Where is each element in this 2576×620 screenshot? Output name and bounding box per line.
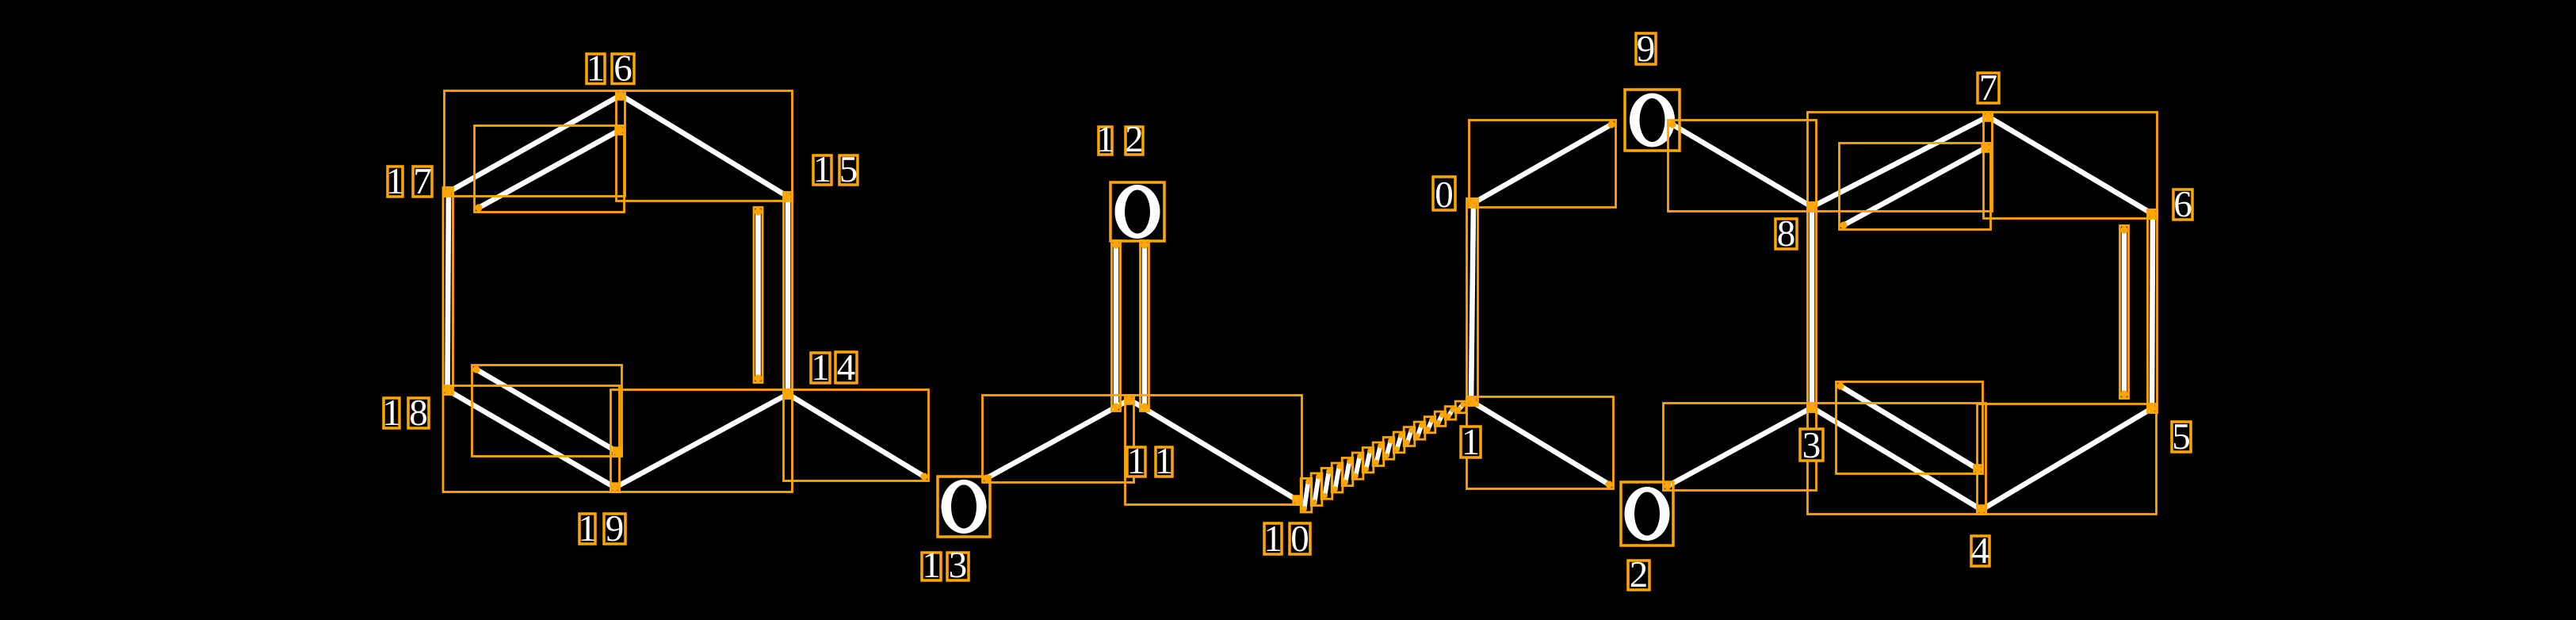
bond 5-4 box <box>1978 404 2157 515</box>
label 4 digit 4 <box>1971 530 1990 572</box>
bond 11-10 box <box>1126 396 1302 505</box>
wire bond 16-17 white line <box>449 95 621 192</box>
wire bond 11-10 white line <box>1129 400 1298 500</box>
bond O13-11 box <box>983 396 1134 483</box>
bond O9-8 box <box>1668 121 1817 212</box>
node O9 box <box>1625 90 1680 151</box>
svg-text:1: 1 <box>587 48 606 90</box>
bond 14-O13 box <box>784 390 929 481</box>
wire bond 1-0 white line <box>1471 203 1473 401</box>
wire bond O13-11 white line <box>987 400 1129 478</box>
wire bond 16-17 inner white line <box>479 130 620 208</box>
node atom 19 marker <box>611 484 620 492</box>
svg-text:6: 6 <box>2173 184 2192 225</box>
wire bond 3-4 inner white line <box>1840 386 1978 469</box>
node inner-line end marker <box>1982 144 1991 152</box>
bond 8-7 inner box <box>1840 144 1991 230</box>
svg-text:7: 7 <box>413 161 432 202</box>
svg-text:5: 5 <box>839 149 858 190</box>
wire bond 18-19 white line <box>448 390 616 488</box>
bond C11=O12 line a box <box>1112 241 1121 411</box>
label 10b digit 0 <box>1290 519 1310 560</box>
label 10a digit 1 <box>1263 519 1282 560</box>
label 15a digit 1 <box>813 149 832 190</box>
label 9 digit 9 <box>1636 29 1656 70</box>
svg-text:5: 5 <box>2172 416 2191 457</box>
svg-text:1: 1 <box>1462 422 1481 463</box>
node O12 box <box>1110 182 1164 241</box>
bond 0-O9 box <box>1470 121 1616 208</box>
svg-text:2: 2 <box>1125 119 1144 160</box>
label 15b digit 5 <box>839 149 858 190</box>
label 13a digit 1 <box>922 545 941 586</box>
wire bond O2-3 white line <box>1668 408 1812 486</box>
node atom 3 marker <box>1808 404 1817 412</box>
label 17a digit 1 <box>386 161 405 202</box>
label 13b digit 3 <box>947 545 969 586</box>
node atom 16 marker <box>617 91 625 100</box>
label 19b digit 9 <box>604 508 625 549</box>
bond 18-19 inner box <box>472 365 622 457</box>
wire bond 14-O13 white line <box>788 394 924 476</box>
svg-text:1: 1 <box>811 347 830 388</box>
wire bond 19-14 white line <box>615 394 788 488</box>
wire bond C11=O12 line b white line <box>1142 245 1148 407</box>
node O12 glyph <box>1115 185 1160 239</box>
node atom 5 marker <box>2148 404 2157 413</box>
node atom 8 marker <box>1808 203 1817 211</box>
svg-text:1: 1 <box>1155 441 1174 482</box>
bond 8-3 box <box>1808 203 1817 412</box>
svg-text:1: 1 <box>1127 441 1146 482</box>
wire bond 18-19 inner white line <box>476 369 617 452</box>
svg-text:0: 0 <box>1290 519 1309 560</box>
node atom 7 marker <box>1984 113 1993 121</box>
bond O2-3 box <box>1664 404 1817 491</box>
node inner-line end marker <box>613 448 622 457</box>
wire bond 6-5 white line <box>2152 214 2153 408</box>
svg-text:1: 1 <box>922 545 941 586</box>
svg-text:8: 8 <box>1777 213 1796 255</box>
label 11a digit 1 <box>1127 441 1146 482</box>
label 8 digit 8 <box>1775 213 1797 255</box>
wire bond 3-4 white line <box>1812 408 1982 510</box>
wire bond 8-3 white line <box>1810 207 1815 408</box>
wire bond 14-15 white line <box>785 197 791 394</box>
wire hashed wedge bond 1-10 white dashes <box>1305 404 1463 508</box>
svg-text:3: 3 <box>1802 425 1821 466</box>
label 2 digit 2 <box>1628 554 1649 595</box>
svg-text:4: 4 <box>1971 530 1990 572</box>
wire bond 6-5 inner white line <box>2122 230 2127 394</box>
node atom 4 marker <box>1978 506 1986 515</box>
bond 16-17 box <box>445 91 625 197</box>
label 11b digit 1 <box>1155 441 1174 482</box>
svg-text:1: 1 <box>578 508 597 549</box>
svg-text:1: 1 <box>382 392 401 434</box>
node atom 17 marker <box>445 188 453 197</box>
node atom 11 marker <box>1126 396 1134 404</box>
node atom 10 marker <box>1294 496 1302 505</box>
bond 15-16 box <box>617 91 793 201</box>
bond 18-19 box <box>443 386 620 492</box>
wire bond 17-18 white line <box>448 192 449 390</box>
wire bond 8-7 white line <box>1812 117 1988 207</box>
wire bond 0-O9 white line <box>1473 124 1611 203</box>
node O13 glyph <box>942 480 987 534</box>
bond 19-14 box <box>611 390 793 492</box>
label 6 digit 6 <box>2173 184 2192 225</box>
bond 8-7 box <box>1808 113 1993 212</box>
bond 1-0 box <box>1467 199 1478 406</box>
node atom 14 marker <box>784 390 793 399</box>
svg-text:8: 8 <box>409 392 428 434</box>
label 14b digit 4 <box>835 347 857 388</box>
wire bond C11=O12 line a white line <box>1114 245 1119 407</box>
label 7 digit 7 <box>1978 67 1999 109</box>
node atom 0 marker <box>1470 199 1478 207</box>
label 14a digit 1 <box>811 347 830 388</box>
svg-text:3: 3 <box>949 545 968 586</box>
label 17b digit 7 <box>413 161 432 202</box>
svg-text:1: 1 <box>813 149 832 190</box>
label 5 digit 5 <box>2172 416 2191 457</box>
label 12b digit 2 <box>1125 119 1144 160</box>
wire bond 7-6 white line <box>1988 117 2153 214</box>
label 3 digit 3 <box>1800 425 1823 466</box>
bond 6-5 box <box>2148 210 2157 413</box>
bond 1-O2 box <box>1467 397 1614 489</box>
wire bond O9-8 white line <box>1672 124 1812 207</box>
node atom 1 marker <box>1467 397 1476 406</box>
bond 3-4 box <box>1808 404 1986 515</box>
svg-text:9: 9 <box>1637 29 1656 70</box>
bond 14-15 box <box>784 193 793 399</box>
node atom 15 marker <box>784 193 793 201</box>
label 12a digit 1 <box>1096 119 1115 160</box>
bond 6-5 inner box <box>2120 226 2129 399</box>
svg-text:1: 1 <box>386 161 405 202</box>
bond 3-4 inner box <box>1836 382 1983 474</box>
label 18a digit 1 <box>382 392 401 434</box>
hashed wedge bond 1-10 annotation boxes <box>1301 401 1466 512</box>
node O2 box <box>1621 482 1673 545</box>
node atom 6 marker <box>2149 210 2157 219</box>
node inner-line end marker <box>616 126 625 135</box>
wire bond 8-7 inner white line <box>1844 147 1986 225</box>
label 16b digit 6 <box>612 48 634 90</box>
node O9 glyph <box>1630 94 1675 147</box>
wire bond 14-15 inner white line <box>755 212 761 378</box>
wire bond 5-4 white line <box>1982 408 2152 510</box>
bond 17-18 box <box>443 188 453 395</box>
label 16a digit 1 <box>587 48 606 90</box>
svg-text:1: 1 <box>1263 519 1282 560</box>
node O2 glyph <box>1625 487 1670 541</box>
svg-text:7: 7 <box>1979 67 1998 109</box>
bond 16-17 inner box <box>475 126 625 212</box>
node inner-line end marker <box>1974 465 1983 474</box>
svg-text:1: 1 <box>1096 119 1115 160</box>
svg-text:6: 6 <box>613 48 633 90</box>
svg-text:0: 0 <box>1435 174 1454 216</box>
bond 14-15 inner box <box>754 208 762 383</box>
bond 7-6 box <box>1984 113 2157 219</box>
bond C11=O12 line b box <box>1141 241 1149 411</box>
label 19a digit 1 <box>578 508 597 549</box>
svg-text:4: 4 <box>837 347 856 388</box>
wire bond 15-16 white line <box>621 95 788 197</box>
node atom 18 marker <box>443 386 452 395</box>
wire bond 1-O2 white line <box>1471 401 1609 484</box>
label 1 digit 1 <box>1461 422 1481 463</box>
label 0 digit 0 <box>1433 174 1455 216</box>
node O13 box <box>938 476 990 537</box>
svg-text:9: 9 <box>606 508 625 549</box>
label 18b digit 8 <box>408 392 429 434</box>
svg-text:2: 2 <box>1630 554 1649 595</box>
